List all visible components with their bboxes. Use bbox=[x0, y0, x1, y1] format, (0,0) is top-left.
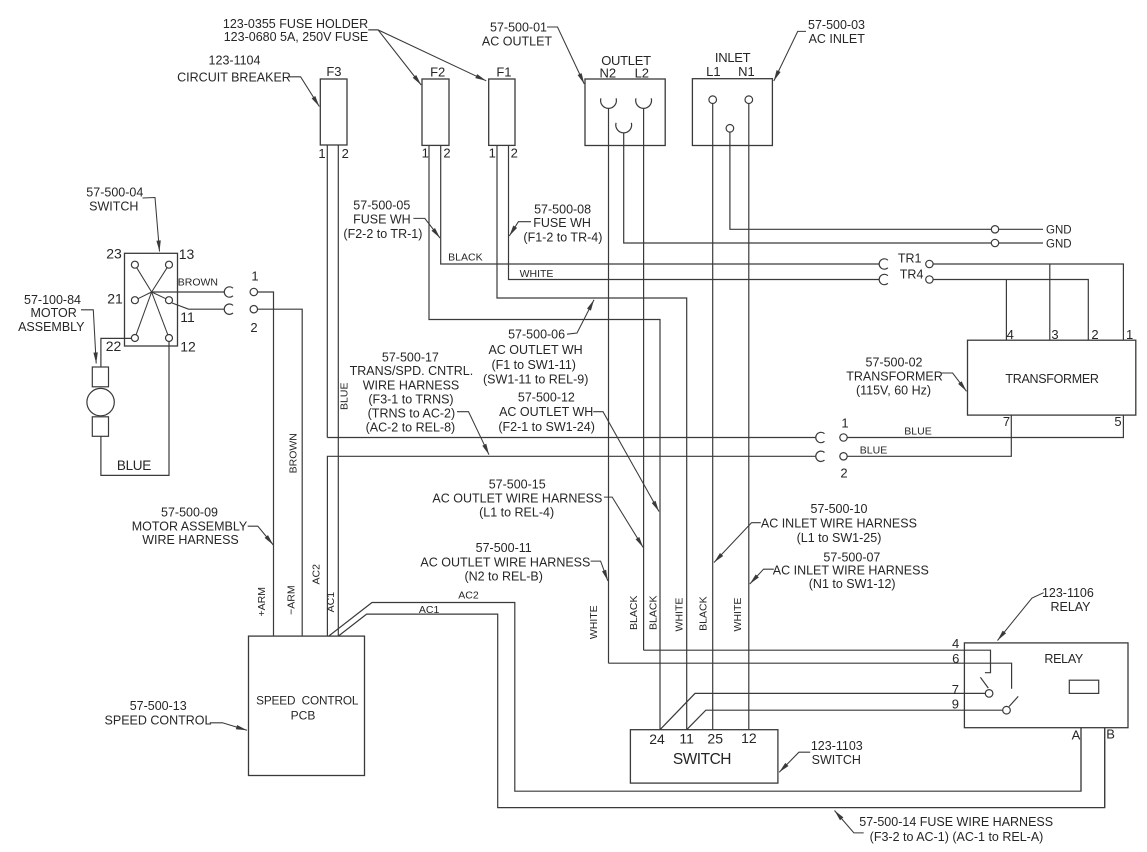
wire relay 7 to SW1-24 bbox=[660, 693, 964, 729]
svg-text:57-500-11: 57-500-11 bbox=[476, 541, 532, 555]
leader to transformer bbox=[941, 373, 967, 391]
relay lever 9 bbox=[1009, 696, 1018, 706]
svg-text:BLACK: BLACK bbox=[648, 596, 660, 630]
svg-text:AC OUTLET WH: AC OUTLET WH bbox=[499, 405, 593, 419]
svg-text:(N1 to SW1-12): (N1 to SW1-12) bbox=[809, 577, 896, 591]
svg-text:SPEED CONTROL: SPEED CONTROL bbox=[105, 714, 212, 728]
wire F2-2 to TR1 (BLACK) bbox=[441, 145, 880, 264]
wire F2-1 to SW1-24 bbox=[429, 145, 660, 729]
switch terminal 23 bbox=[131, 261, 138, 268]
svg-text:(F1-2 to TR-4): (F1-2 to TR-4) bbox=[523, 230, 602, 244]
AC inlet J2 bbox=[692, 79, 772, 146]
svg-text:57-500-09: 57-500-09 bbox=[161, 506, 218, 520]
svg-text:123-1106: 123-1106 bbox=[1042, 586, 1094, 600]
leader to N1 drop bbox=[750, 569, 774, 584]
svg-text:GND: GND bbox=[1046, 225, 1072, 237]
svg-text:TR4: TR4 bbox=[900, 268, 924, 282]
connector socket TR4 bbox=[879, 274, 888, 284]
wire F1-2 to TR4 (WHITE) bbox=[509, 145, 880, 279]
svg-text:TRANSFORMER: TRANSFORMER bbox=[846, 369, 943, 383]
svg-text:2: 2 bbox=[342, 146, 349, 161]
leader to AC-2 wire bbox=[457, 412, 489, 455]
svg-text:SWITCH: SWITCH bbox=[89, 200, 138, 214]
svg-text:AC2: AC2 bbox=[311, 564, 323, 585]
svg-text:22: 22 bbox=[106, 338, 122, 354]
svg-text:MOTOR ASSEMBLY: MOTOR ASSEMBLY bbox=[132, 519, 248, 533]
svg-text:N1: N1 bbox=[738, 64, 755, 79]
svg-text:WHITE: WHITE bbox=[520, 268, 554, 280]
svg-text:AC1: AC1 bbox=[325, 592, 337, 613]
svg-text:AC INLET WIRE HARNESS: AC INLET WIRE HARNESS bbox=[761, 517, 917, 531]
svg-text:123-0680 5A, 250V FUSE: 123-0680 5A, 250V FUSE bbox=[224, 30, 369, 44]
switch SW1 123-1103 bbox=[630, 730, 778, 783]
svg-text:L1: L1 bbox=[706, 64, 720, 79]
wire transformer pin 3 bbox=[1049, 264, 1051, 340]
svg-text:(L1 to REL-4): (L1 to REL-4) bbox=[479, 506, 554, 520]
wire relay pin A drop bbox=[1080, 728, 1082, 792]
relay moving contact 9 bbox=[1003, 706, 1011, 714]
wire connector 1 to PCB +ARM bbox=[258, 292, 274, 636]
svg-text:(TRNS to AC-2): (TRNS to AC-2) bbox=[368, 406, 456, 420]
svg-text:B: B bbox=[1106, 727, 1115, 742]
svg-text:7: 7 bbox=[952, 682, 959, 697]
relay K1 bbox=[964, 643, 1128, 728]
leader to switch bbox=[143, 198, 160, 252]
wire outlet ground to GND bbox=[624, 133, 992, 243]
svg-text:24: 24 bbox=[649, 731, 665, 747]
leader to SW1 box bbox=[779, 752, 810, 772]
relay lever 7 bbox=[980, 677, 988, 688]
leader to F1-2 wire bbox=[509, 222, 531, 236]
svg-text:BROWN: BROWN bbox=[287, 433, 299, 473]
wire outlet L2 to relay 4 bbox=[644, 649, 965, 651]
svg-text:TRANSFORMER: TRANSFORMER bbox=[1005, 372, 1099, 386]
svg-text:1: 1 bbox=[841, 416, 848, 431]
relay internal contact 4 bbox=[964, 650, 990, 673]
svg-text:57-500-07: 57-500-07 bbox=[823, 550, 880, 564]
svg-text:F1: F1 bbox=[496, 64, 511, 79]
svg-text:AC1: AC1 bbox=[419, 604, 440, 616]
svg-text:BLUE: BLUE bbox=[860, 445, 887, 457]
svg-text:L2: L2 bbox=[635, 66, 649, 81]
svg-text:12: 12 bbox=[741, 730, 757, 746]
connector pin 2 transformer bbox=[840, 453, 847, 460]
wire connector 2 to PCB AC2 bbox=[327, 456, 815, 636]
inlet pin N1 bbox=[745, 96, 753, 104]
svg-text:WIRE HARNESS: WIRE HARNESS bbox=[142, 533, 239, 547]
connector pin 2 bbox=[250, 306, 257, 313]
svg-text:A: A bbox=[1072, 727, 1081, 742]
svg-text:123-1104: 123-1104 bbox=[209, 53, 261, 67]
svg-text:57-500-10: 57-500-10 bbox=[811, 502, 868, 516]
svg-text:SWITCH: SWITCH bbox=[673, 751, 731, 768]
wire inlet L1 to SW1-25 (BLACK) bbox=[712, 104, 714, 730]
svg-text:BLUE: BLUE bbox=[338, 383, 350, 410]
leader to F1-1 wire bbox=[567, 300, 594, 334]
leader to motor bbox=[81, 310, 96, 364]
svg-text:AC OUTLET WIRE HARNESS: AC OUTLET WIRE HARNESS bbox=[420, 555, 590, 569]
svg-text:INLET: INLET bbox=[715, 50, 751, 65]
svg-text:WHITE: WHITE bbox=[732, 598, 744, 632]
svg-text:FUSE WH: FUSE WH bbox=[533, 216, 591, 230]
switch terminal 21 bbox=[131, 297, 138, 304]
svg-text:57-500-06: 57-500-06 bbox=[508, 328, 565, 342]
connector pin 1 bbox=[250, 288, 257, 295]
svg-text:(N2 to REL-B): (N2 to REL-B) bbox=[464, 570, 543, 584]
wire F3-2 to PCB AC1 bbox=[337, 145, 339, 636]
svg-text:AC OUTLET WIRE HARNESS: AC OUTLET WIRE HARNESS bbox=[432, 492, 602, 506]
wire transformer pin 7 to connector 2 (BLUE) bbox=[847, 415, 1011, 456]
wire PCB AC2 to relay A bbox=[329, 603, 1081, 792]
svg-text:(SW1-11 to REL-9): (SW1-11 to REL-9) bbox=[483, 373, 588, 387]
wire TR4 to transformer pin 2 bbox=[933, 280, 1088, 341]
motor assembly upper terminal bbox=[92, 367, 108, 387]
svg-text:BLACK: BLACK bbox=[698, 596, 710, 630]
wire connector 2 to PCB -ARM (BROWN) bbox=[258, 309, 303, 636]
svg-text:SPEED CONTROL: SPEED CONTROL bbox=[256, 693, 359, 707]
wire inlet N1 to SW1-12 (WHITE) bbox=[748, 104, 750, 730]
leader to PCB bbox=[210, 723, 247, 731]
svg-text:F3: F3 bbox=[326, 64, 341, 79]
svg-text:11: 11 bbox=[679, 731, 694, 747]
svg-text:RELAY: RELAY bbox=[1050, 600, 1091, 614]
svg-text:BLACK: BLACK bbox=[448, 251, 482, 263]
svg-text:57-500-17: 57-500-17 bbox=[382, 350, 439, 364]
svg-text:WHITE: WHITE bbox=[673, 598, 685, 632]
wire outlet N2 drop (WHITE) bbox=[608, 108, 610, 663]
svg-text:MOTOR: MOTOR bbox=[30, 306, 76, 320]
relay coil bbox=[1069, 680, 1098, 693]
relay internal contact 6 bbox=[964, 663, 1011, 689]
svg-text:11: 11 bbox=[180, 309, 195, 325]
svg-text:F2: F2 bbox=[430, 64, 445, 79]
leader to outlet bbox=[547, 27, 584, 84]
svg-text:PCB: PCB bbox=[291, 709, 316, 723]
svg-text:25: 25 bbox=[707, 731, 723, 747]
leader to F2 bbox=[368, 30, 421, 85]
svg-text:21: 21 bbox=[107, 291, 123, 307]
svg-text:BLUE: BLUE bbox=[904, 426, 931, 438]
wire motor to switch-12 (BLUE) bbox=[101, 342, 169, 476]
wire transformer pin 4 bbox=[1005, 280, 1007, 341]
connector pin 1 transformer bbox=[840, 434, 847, 441]
svg-text:57-500-15: 57-500-15 bbox=[489, 477, 546, 491]
AC outlet J1 bbox=[585, 79, 665, 146]
wire F1-1 to SW1-11 bbox=[497, 145, 687, 729]
connector socket 1 transformer bbox=[816, 432, 825, 442]
svg-text:AC OUTLET WH: AC OUTLET WH bbox=[488, 343, 582, 357]
svg-text:1: 1 bbox=[422, 145, 429, 160]
svg-text:BLACK: BLACK bbox=[628, 596, 640, 630]
connector socket 2 bbox=[224, 304, 233, 314]
svg-text:TR1: TR1 bbox=[898, 252, 922, 266]
svg-text:AC INLET: AC INLET bbox=[809, 32, 866, 46]
svg-text:12: 12 bbox=[180, 339, 196, 355]
svg-text:(AC-2 to REL-8): (AC-2 to REL-8) bbox=[366, 420, 456, 434]
leader to +ARM wire bbox=[248, 526, 274, 545]
svg-text:1: 1 bbox=[318, 146, 325, 161]
svg-text:13: 13 bbox=[179, 246, 195, 262]
svg-text:(115V, 60 Hz): (115V, 60 Hz) bbox=[856, 383, 931, 397]
switch terminal 13 bbox=[166, 261, 173, 268]
svg-text:123-0355 FUSE HOLDER: 123-0355 FUSE HOLDER bbox=[223, 17, 368, 31]
leader to bottom wire bbox=[835, 811, 864, 833]
fuse holder F2 bbox=[422, 79, 449, 145]
switch internal contact spokes bbox=[137, 268, 152, 292]
svg-text:(F3-2 to AC-1) (AC-1 to REL-A): (F3-2 to AC-1) (AC-1 to REL-A) bbox=[870, 830, 1044, 844]
transformer T1 bbox=[968, 340, 1136, 415]
wire PCB AC1 to relay B bbox=[338, 614, 1104, 808]
wire F3-1 drop (BLUE) bbox=[326, 145, 328, 438]
wire relay pin B drop bbox=[1104, 728, 1106, 808]
svg-text:AC INLET WIRE HARNESS: AC INLET WIRE HARNESS bbox=[773, 563, 929, 577]
svg-text:2: 2 bbox=[840, 466, 847, 481]
svg-text:GND: GND bbox=[1046, 239, 1072, 251]
svg-text:2: 2 bbox=[443, 145, 450, 160]
svg-text:57-500-08: 57-500-08 bbox=[534, 203, 591, 217]
svg-text:1: 1 bbox=[489, 145, 496, 160]
svg-text:TRANS/SPD. CNTRL.: TRANS/SPD. CNTRL. bbox=[350, 364, 474, 378]
svg-text:WHITE: WHITE bbox=[588, 605, 600, 639]
wire switch common to connector 1 (BROWN) bbox=[152, 291, 225, 293]
wire transformer pin 5 to connector 1 (BLUE) bbox=[847, 415, 1123, 437]
wire connector to F3-1 (BLUE) bbox=[327, 437, 815, 439]
svg-text:57-500-13: 57-500-13 bbox=[130, 699, 187, 713]
svg-text:(F2-1 to SW1-24): (F2-1 to SW1-24) bbox=[498, 420, 595, 434]
svg-text:123-1103: 123-1103 bbox=[811, 739, 863, 753]
svg-text:AC OUTLET: AC OUTLET bbox=[482, 34, 553, 48]
svg-text:5: 5 bbox=[1114, 414, 1121, 429]
ground terminal 2 bbox=[991, 239, 998, 246]
svg-text:4: 4 bbox=[952, 636, 959, 651]
leader to L1 drop bbox=[714, 523, 761, 563]
svg-text:23: 23 bbox=[106, 246, 122, 262]
leader to relay box bbox=[998, 593, 1044, 641]
svg-text:2: 2 bbox=[250, 320, 257, 335]
wire outlet N2 to relay 6 bbox=[609, 662, 965, 664]
svg-text:+ARM: +ARM bbox=[256, 587, 268, 616]
svg-text:FUSE WH: FUSE WH bbox=[353, 213, 411, 227]
leader to inlet bbox=[774, 31, 806, 81]
switch terminal 12 bbox=[166, 335, 173, 342]
svg-text:(F2-2 to TR-1): (F2-2 to TR-1) bbox=[343, 227, 422, 241]
svg-text:WIRE HARNESS: WIRE HARNESS bbox=[363, 378, 460, 392]
speed control PCB bbox=[249, 636, 365, 775]
leader to L2 drop bbox=[604, 497, 643, 547]
leader to N2 drop bbox=[591, 561, 608, 581]
svg-text:BROWN: BROWN bbox=[178, 276, 218, 288]
relay internal lead 9 bbox=[964, 709, 1002, 711]
wire inlet ground to GND bbox=[730, 132, 991, 229]
switch terminal 22 bbox=[131, 335, 138, 342]
outlet ground contact bbox=[616, 123, 632, 133]
svg-text:CIRCUIT BREAKER: CIRCUIT BREAKER bbox=[177, 70, 291, 84]
svg-text:AC2: AC2 bbox=[458, 590, 479, 602]
motor assembly lower terminal bbox=[92, 417, 108, 437]
connector socket 1 bbox=[224, 287, 233, 297]
svg-text:(L1 to SW1-25): (L1 to SW1-25) bbox=[797, 531, 882, 545]
svg-text:9: 9 bbox=[952, 697, 959, 712]
switch SW 57-500-04 bbox=[125, 253, 178, 346]
leader to F1 bbox=[368, 30, 486, 81]
svg-text:2: 2 bbox=[511, 145, 518, 160]
leader to F3 bbox=[288, 77, 319, 107]
svg-text:57-500-14 FUSE WIRE HARNESS: 57-500-14 FUSE WIRE HARNESS bbox=[859, 815, 1053, 829]
wire to GND 1 bbox=[999, 228, 1043, 230]
svg-text:57-500-03: 57-500-03 bbox=[808, 18, 865, 32]
svg-text:7: 7 bbox=[1003, 414, 1010, 429]
svg-text:57-500-01: 57-500-01 bbox=[490, 20, 547, 34]
svg-text:SWITCH: SWITCH bbox=[812, 753, 861, 767]
svg-text:1: 1 bbox=[251, 269, 258, 284]
fuse holder F1 bbox=[489, 79, 515, 145]
wire switch-22 to motor bbox=[101, 338, 131, 367]
connector pin TR1 bbox=[926, 260, 933, 267]
fuse holder F3 bbox=[320, 79, 347, 145]
svg-text:RELAY: RELAY bbox=[1044, 652, 1084, 666]
relay moving contact 7 bbox=[985, 690, 993, 698]
wire to GND 2 bbox=[999, 242, 1043, 244]
inlet ground pin bbox=[726, 125, 734, 133]
leader to F2-1 drop bbox=[593, 412, 659, 512]
svg-text:N2: N2 bbox=[599, 65, 616, 80]
connector pin TR4 bbox=[926, 276, 933, 283]
svg-text:−ARM: −ARM bbox=[286, 585, 298, 614]
outlet contact N2 bbox=[601, 98, 617, 108]
svg-text:57-500-05: 57-500-05 bbox=[353, 199, 410, 213]
wire relay 9 to SW1-11 bbox=[687, 710, 965, 730]
wire switch-11 to connector 2 bbox=[172, 303, 224, 309]
svg-text:(F1 to SW1-11): (F1 to SW1-11) bbox=[491, 358, 576, 372]
inlet pin L1 bbox=[709, 96, 717, 104]
wire outlet L2 drop (BLACK) bbox=[643, 108, 645, 650]
svg-text:BLUE: BLUE bbox=[117, 458, 151, 473]
svg-text:6: 6 bbox=[952, 651, 959, 666]
connector socket TR1 bbox=[879, 259, 888, 269]
motor body bbox=[87, 388, 114, 415]
svg-text:57-500-12: 57-500-12 bbox=[518, 391, 575, 405]
svg-text:57-500-04: 57-500-04 bbox=[86, 186, 143, 200]
svg-text:57-500-02: 57-500-02 bbox=[866, 355, 923, 369]
switch terminal 11 bbox=[166, 297, 173, 304]
svg-text:(F3-1 to TRNS): (F3-1 to TRNS) bbox=[368, 392, 453, 406]
ground terminal 1 bbox=[991, 226, 998, 233]
connector socket 2 transformer bbox=[816, 451, 825, 461]
relay internal lead 7 bbox=[964, 692, 985, 694]
leader to F2-2 wire bbox=[413, 218, 440, 238]
wire TR1 to transformer pin 1 bbox=[933, 264, 1123, 340]
outlet contact L2 bbox=[636, 98, 652, 108]
svg-text:ASSEMBLY: ASSEMBLY bbox=[18, 320, 85, 334]
